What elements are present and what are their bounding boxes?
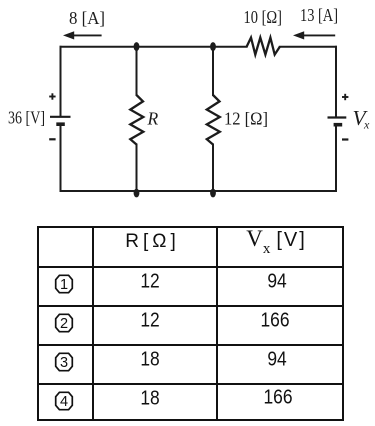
current arrow 8A (63, 31, 102, 39)
svg-text:1: 1 (60, 277, 68, 293)
svg-text:13 [A]: 13 [A] (300, 5, 338, 25)
table column line 2 (216, 228, 218, 419)
svg-text:12 [Ω]: 12 [Ω] (224, 109, 268, 129)
svg-text:4: 4 (60, 394, 68, 410)
svg-text:10 [Ω]: 10 [Ω] (244, 7, 283, 27)
resistor 10 ohm (247, 38, 280, 55)
table cell r2 R value (140, 309, 159, 332)
table cell r4 V value (263, 387, 292, 410)
wire bottom (61, 190, 337, 192)
wire left upper (60, 47, 62, 116)
svg-text:2: 2 (60, 316, 68, 332)
row marker 4 (54, 391, 74, 411)
node junction bottom-left (134, 189, 140, 198)
table cell r3 V value (267, 348, 286, 371)
svg-text:R: R (147, 109, 159, 129)
table column line 1 (92, 228, 94, 419)
table row line 4 (39, 383, 342, 385)
battery 36V plus mark (49, 93, 55, 99)
circuit schematic (0, 0, 375, 220)
table row line 3 (39, 344, 342, 346)
battery Vx plus mark (342, 94, 348, 100)
resistor 12 ohm (207, 95, 220, 145)
row marker 1 (54, 274, 74, 294)
table header Vx[V] (246, 226, 307, 258)
table cell r2 V value (260, 309, 289, 332)
wire right upper (335, 47, 337, 117)
battery source Vx (328, 118, 347, 125)
battery 36V minus mark (49, 138, 55, 140)
svg-text:3: 3 (60, 355, 68, 371)
wire branch 12ohm upper (212, 47, 214, 95)
wire branch 12ohm lower (212, 145, 214, 192)
wire top-right segment (280, 46, 336, 48)
battery source 36V (50, 117, 71, 124)
resistor R (130, 95, 143, 145)
node junction top-right (210, 42, 216, 51)
battery Vx minus mark (342, 138, 348, 140)
table cell r1 R value (140, 271, 159, 294)
node junction bottom-right (210, 189, 216, 198)
wire left lower (60, 125, 62, 192)
row marker 3 (54, 352, 74, 372)
wire right lower (335, 125, 337, 191)
table cell r4 R value (140, 387, 159, 410)
row marker 2 (54, 313, 74, 333)
table row line 2 (39, 305, 342, 307)
svg-text:8 [A]: 8 [A] (69, 8, 105, 28)
answer table (37, 226, 344, 421)
wire branch R lower (136, 145, 138, 192)
wire branch R upper (136, 47, 138, 95)
table header R[ohm] (125, 231, 179, 253)
table row line 1 (39, 266, 342, 268)
svg-text:36 [V]: 36 [V] (8, 108, 45, 128)
node junction top-left (134, 42, 140, 51)
current arrow 13A (293, 31, 335, 39)
table cell r3 R value (140, 348, 159, 371)
table cell r1 V value (267, 271, 286, 294)
wire top-left segment (61, 46, 247, 48)
svg-text:x: x (363, 118, 370, 132)
